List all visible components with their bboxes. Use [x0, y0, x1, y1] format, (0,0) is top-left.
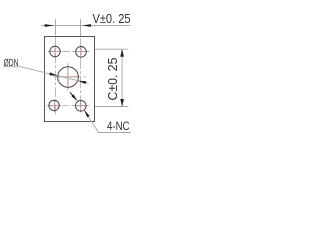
- wire center hole vertical centerline: [67, 63, 69, 92]
- plate outline: [45, 37, 95, 122]
- wire vertical centerline through left holes: [47, 19, 91, 114]
- dimension V: extension line left: [55, 19, 57, 35]
- wire vertical centerline through right holes: [80, 19, 82, 114]
- hole top-left: [50, 46, 60, 56]
- dimension ØDN: left arrow: [49, 72, 57, 75]
- dimension C: extension line bottom: [95, 106, 129, 108]
- dimension ØDN: right arrow: [78, 81, 87, 84]
- dimension C: bottom arrow: [120, 99, 124, 107]
- dimension ØDN: leader line: [20, 67, 89, 84]
- label ØDN underline: [4, 66, 21, 68]
- dimension V: left arrow: [45, 24, 54, 27]
- svg-text:4-NC: 4-NC: [107, 119, 130, 133]
- dimension 4-NC: lower arrow: [84, 110, 90, 118]
- dimension 4-NC: upper arrow: [71, 94, 77, 101]
- svg-text:ØDN: ØDN: [4, 57, 19, 69]
- dimension V: line: [41, 25, 131, 27]
- wire horizontal centerline top holes: [48, 51, 90, 53]
- center hole: [58, 67, 79, 88]
- dimension V: right arrow: [82, 24, 91, 27]
- dimension C: line: [121, 49, 123, 106]
- wire center hole horizontal centerline: [54, 76, 87, 78]
- svg-text:V±0. 25: V±0. 25: [93, 11, 131, 26]
- wire horizontal centerline bottom holes: [47, 105, 91, 107]
- dimension V: extension line right: [80, 19, 82, 35]
- node red crosshair tints on holes: [48, 46, 88, 113]
- dimension 4-NC: leader line: [84, 110, 131, 133]
- hole top-right: [76, 47, 87, 58]
- dimension 4-NC: upper tail: [70, 92, 73, 95]
- hole bottom-right: [76, 101, 87, 112]
- dimension C: extension line top: [95, 48, 129, 50]
- svg-text:C±0. 25: C±0. 25: [106, 57, 120, 100]
- dimension C: top arrow: [120, 49, 124, 57]
- hole bottom-left: [49, 100, 59, 110]
